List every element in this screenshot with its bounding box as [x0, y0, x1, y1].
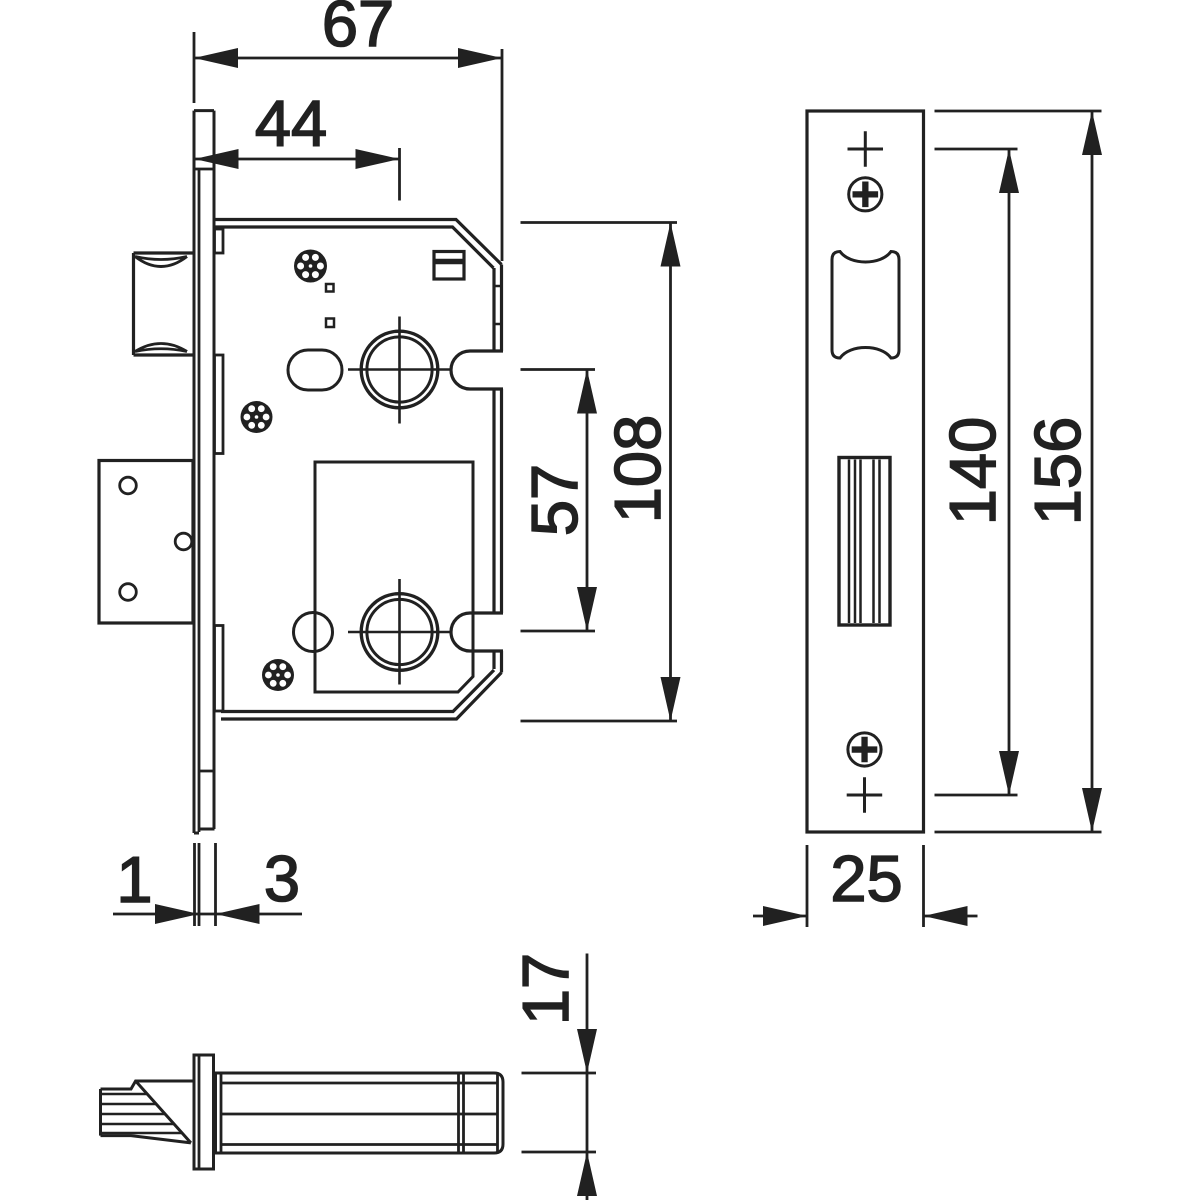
bolt cutout	[839, 458, 890, 626]
label box	[434, 252, 464, 280]
faceplate front rect	[807, 111, 924, 832]
faceplate inner plate	[198, 169, 201, 832]
case top edge	[215, 220, 502, 265]
svg-text:140: 140	[936, 417, 1009, 525]
follower hole upper	[361, 331, 438, 408]
deadbolt guide box	[315, 462, 473, 692]
svg-text:17: 17	[509, 953, 582, 1025]
lug top	[215, 229, 224, 253]
case edge tick 2	[494, 323, 502, 326]
dim 156 line	[1091, 111, 1094, 832]
svg-text:1: 1	[116, 843, 152, 916]
lug bottom	[215, 626, 224, 712]
case edge tick 1	[494, 285, 502, 288]
tube flange	[194, 1055, 214, 1169]
svg-text:67: 67	[322, 0, 394, 60]
tube latch head hatched	[101, 1081, 195, 1143]
spindle hole lower	[361, 594, 438, 671]
dim 67 line	[194, 57, 502, 60]
latch bolt	[134, 253, 195, 355]
svg-text:57: 57	[518, 464, 591, 536]
notch upper	[451, 351, 503, 389]
tube body	[216, 1073, 504, 1153]
dim 1-3 line	[113, 913, 302, 916]
svg-text:156: 156	[1021, 417, 1094, 525]
torx screw bottom	[262, 659, 294, 691]
torx screw middle	[241, 401, 273, 433]
phillips screw bottom	[848, 733, 881, 766]
latch cutout	[832, 252, 899, 359]
small square 2	[326, 319, 334, 328]
plus mark bottom	[847, 777, 883, 812]
oval slot	[288, 350, 342, 390]
svg-text:3: 3	[264, 842, 300, 915]
dim 140 line	[1008, 149, 1011, 795]
plus mark top	[848, 131, 884, 166]
svg-text:108: 108	[601, 415, 674, 523]
small square 1	[326, 284, 334, 292]
deadbolt	[99, 461, 193, 624]
notch lower	[451, 613, 503, 651]
svg-text:44: 44	[255, 87, 327, 160]
dim 108 line	[669, 223, 672, 722]
dim 17 line	[586, 954, 589, 1200]
torx screw top	[294, 250, 327, 283]
small circle lower	[294, 613, 333, 652]
dim 57 line	[586, 370, 589, 632]
dim 25 line	[753, 915, 978, 918]
dim 44 line	[195, 158, 400, 161]
phillips screw top	[849, 178, 882, 211]
svg-text:25: 25	[830, 842, 902, 915]
case bottom edge	[221, 673, 502, 720]
case right edge	[500, 265, 503, 673]
lug middle	[215, 355, 224, 454]
faceplate outer plate	[194, 111, 214, 833]
